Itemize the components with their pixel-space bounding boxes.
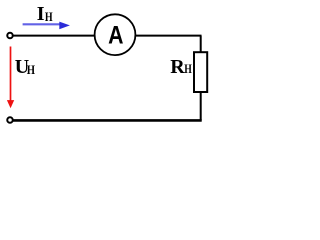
label IH [37,3,53,25]
svg-text:H: H [45,11,53,24]
wire bottom horizontal [13,119,202,122]
ammeter [95,14,136,55]
svg-text:H: H [27,63,35,77]
wire right vertical [200,36,202,121]
terminal top-left [7,33,13,39]
label RH [170,56,192,78]
voltage arrow UH (red) [7,47,14,109]
svg-text:I: I [37,3,45,25]
svg-text:H: H [184,63,192,76]
terminal bottom-left [7,117,13,123]
label UH [15,56,35,78]
wire top horizontal [13,35,202,37]
resistor RH body [194,52,207,92]
current arrow IH (blue) [23,22,70,30]
svg-text:R: R [170,56,185,78]
svg-text:A: A [108,21,124,49]
